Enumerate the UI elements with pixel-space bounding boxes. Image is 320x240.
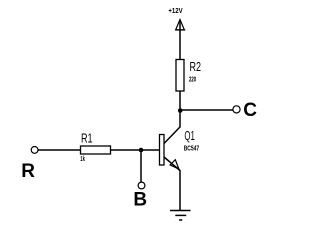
svg-text:220: 220 [189,76,196,83]
svg-text:R: R [21,161,35,182]
svg-text:BC547: BC547 [184,146,200,153]
svg-text:1k: 1k [80,156,85,163]
svg-text:+12V: +12V [168,8,182,15]
svg-text:R1: R1 [81,130,93,145]
svg-text:C: C [243,100,257,121]
svg-text:B: B [133,190,147,211]
svg-text:Q1: Q1 [184,128,195,143]
svg-text:R2: R2 [190,59,202,74]
